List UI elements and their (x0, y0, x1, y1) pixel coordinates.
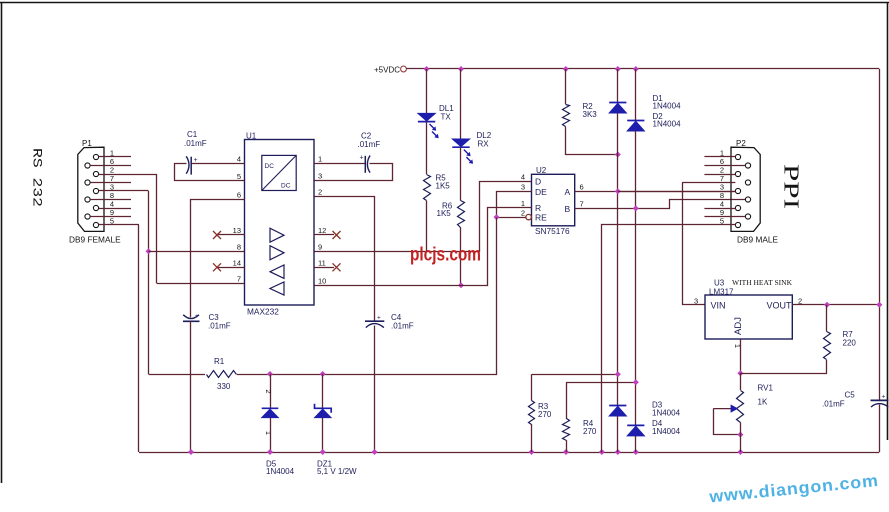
wire R4 to ground bus (566, 440, 568, 452)
P2 pin 7 wire (682, 182, 735, 184)
junction VOUT / R7 (824, 302, 830, 308)
svg-text:.01mF: .01mF (391, 322, 414, 331)
svg-text:VIN: VIN (711, 301, 726, 311)
diode D1 (609, 102, 626, 104)
U1 pin 12 stub and no-connect X (314, 234, 334, 236)
svg-text:RE: RE (535, 213, 547, 223)
svg-text:12: 12 (318, 226, 326, 235)
svg-text:3: 3 (694, 296, 698, 305)
wire P1 pin5 to ground bus (138, 225, 140, 452)
wire R5 to U1 pin9 net (426, 201, 428, 252)
svg-text:U3: U3 (714, 279, 725, 288)
svg-text:1K5: 1K5 (436, 182, 451, 191)
P1 pin 4 circle (93, 205, 98, 210)
svg-text:1: 1 (264, 431, 273, 435)
P2 pin 4 wire stub (704, 208, 735, 210)
svg-text:10: 10 (318, 277, 326, 286)
svg-text:R1: R1 (214, 357, 225, 366)
wire R3 top to D1 line (532, 374, 618, 376)
svg-text:7: 7 (237, 275, 241, 284)
connector P1 DB9 FEMALE body (78, 147, 104, 231)
svg-text:P2: P2 (736, 139, 746, 148)
svg-text:2: 2 (264, 389, 273, 393)
svg-text:C1: C1 (187, 130, 198, 139)
svg-text:MAX232: MAX232 (247, 307, 279, 317)
wire C5 to ground bus (879, 405, 881, 453)
svg-text:www.diangon.com: www.diangon.com (707, 471, 879, 507)
wire R4 top to D2 line (566, 382, 636, 384)
svg-text:+: + (377, 315, 381, 322)
wire R2 to D1 line (566, 127, 618, 155)
svg-text:VOUT: VOUT (767, 301, 793, 311)
P1 pin 9 wire stub (90, 216, 131, 218)
wire U1 pin6 to C3 (191, 200, 245, 318)
junction R1 net / DZ1 (320, 371, 326, 377)
resistor R6 (458, 201, 465, 228)
wire D4 to ground bus (635, 436, 637, 452)
P1 pin 8 circle (85, 197, 90, 202)
wire P1 pin2 down (156, 174, 158, 284)
wire +5VDC top bus (407, 68, 880, 70)
wire U1 pin9 to U2 pin4 (D) (315, 182, 532, 252)
svg-text:TX: TX (441, 113, 452, 122)
svg-text:5,1 V 1/2W: 5,1 V 1/2W (317, 467, 357, 476)
U1 pin 13 stub and no-connect X (217, 234, 245, 236)
junction ground bus x=322.7 (320, 449, 326, 455)
P2 pin 3 wire (618, 191, 736, 193)
junction ADJ node (737, 370, 743, 376)
P2 pin 7 circle (745, 180, 750, 185)
ground bus bottom wire (139, 452, 879, 454)
svg-text:+: + (882, 394, 886, 401)
capacitor C4 (365, 320, 384, 322)
P2 pin 5 circle (735, 222, 740, 227)
svg-text:7: 7 (580, 200, 584, 209)
svg-text:RS 232: RS 232 (30, 148, 44, 207)
U1 DC-DC converter symbol (262, 155, 296, 190)
wire U1 pin2 to C4 (315, 197, 375, 321)
wire ADJ node to R7 bottom (740, 373, 827, 375)
wire U1 pin10 to U2 pin1 (R) (315, 208, 532, 286)
LED DL1 (418, 113, 435, 121)
resistor R3 (529, 401, 535, 425)
svg-text:1N4004: 1N4004 (653, 120, 682, 129)
svg-text:270: 270 (538, 410, 552, 419)
wire DZ1 branch (322, 374, 324, 408)
P1 pin 2 circle (93, 171, 98, 176)
P1 pin 5 circle (93, 222, 98, 227)
U1 buffer triangle 2 (270, 246, 284, 260)
wire U1 pin7 (157, 283, 245, 285)
wire P1 pin3 down to junction (148, 191, 150, 374)
IC U3 LM317 body (705, 295, 792, 339)
junction ground bus x=270 (267, 449, 273, 455)
wire DL1 branch (426, 69, 428, 114)
P2 pin 6 circle (745, 163, 750, 168)
P2 pin 2 wire stub (704, 174, 735, 176)
page border left (1, 3, 3, 484)
junction ground bus x=374.5 (372, 449, 378, 455)
junction ground bus x=635.8 (633, 449, 639, 455)
P2 pin 4 circle (735, 205, 740, 210)
svg-text:DC: DC (265, 163, 275, 170)
zener diode DZ1 (315, 404, 332, 413)
svg-text:220: 220 (843, 339, 857, 348)
diode D2 (627, 120, 644, 122)
wire R2 branch (565, 69, 567, 104)
junction top bus DL2 (458, 66, 464, 72)
P1 pin 6 wire stub (90, 165, 131, 167)
DL1 light arrows (430, 124, 436, 130)
svg-text:6: 6 (237, 191, 241, 200)
svg-text:+5VDC: +5VDC (374, 65, 400, 74)
P1 pin 3 circle (93, 188, 98, 193)
P2 pin 5 wire (602, 225, 736, 453)
P2 pin 1 circle (735, 154, 740, 159)
svg-text:1K: 1K (758, 398, 768, 407)
RV1 wiper arrow (713, 408, 731, 410)
svg-text:+: + (194, 157, 198, 164)
junction top bus D1 (615, 66, 621, 72)
capacitor C1 wire pin4 side (192, 163, 245, 165)
svg-text:+: + (195, 313, 199, 320)
junction B line (633, 205, 639, 211)
svg-text:DE: DE (535, 187, 547, 197)
svg-text:ADJ: ADJ (733, 317, 744, 335)
junction ground bus x=601.8 (599, 449, 605, 455)
svg-text:R: R (535, 203, 541, 213)
P1 pin 9 circle (85, 214, 90, 219)
junction A line (615, 188, 621, 194)
inversion bubble U2 pin2 RE (526, 214, 531, 219)
P1 pin 2 wire (99, 174, 157, 176)
svg-text:B: B (565, 204, 571, 214)
U1 pin 14 stub and no-connect X (217, 267, 245, 269)
wire DL2 to R6 (460, 147, 462, 200)
resistor R2 (563, 105, 570, 127)
wire DZ1 to ground bus (322, 418, 324, 452)
junction top bus R2 (563, 66, 569, 72)
P2 pin 9 circle (745, 214, 750, 219)
junction ground bus x=191 (188, 449, 194, 455)
junction R6 / U1 pin10 (458, 282, 464, 288)
svg-text:270: 270 (583, 427, 597, 436)
diode D5 (262, 407, 279, 409)
wire +5V right side down to VOUT (879, 69, 881, 400)
P2 pin 3 circle (735, 188, 740, 193)
P2 pin 1 wire stub (704, 156, 735, 158)
wire C3 to ground bus (190, 321, 192, 452)
P1 pin 6 circle (85, 163, 90, 168)
svg-text:SN75176: SN75176 (535, 226, 570, 236)
wire R7 bottom (826, 360, 828, 374)
wire C2 to pin3 (315, 164, 393, 181)
IC U2 SN75176 body (532, 174, 575, 226)
junction R4 net / D2 line (633, 379, 639, 385)
P1 pin 4 wire stub (99, 208, 131, 210)
svg-text:5: 5 (237, 172, 241, 181)
P2 pin 8 circle (745, 197, 750, 202)
svg-text:1: 1 (318, 154, 322, 163)
diode D4 (627, 424, 644, 426)
P1 pin 8 wire stub (90, 199, 131, 201)
P1 pin 1 circle (93, 154, 98, 159)
junction ground bus x=531.5 (529, 449, 535, 455)
wire P2 pin7 down to U3 VIN (683, 183, 705, 305)
wire D2 branch (635, 69, 637, 121)
svg-text:4: 4 (521, 173, 525, 182)
junction P1.3 / U1.8 (146, 248, 152, 254)
DL2 light arrows (464, 150, 470, 156)
wire DL2 branch (460, 69, 462, 139)
svg-text:11: 11 (318, 259, 326, 268)
IC U1 MAX232 body (245, 140, 315, 306)
wire D2 down (B line) (635, 131, 637, 425)
junction ground bus x=617.8 (615, 449, 621, 455)
svg-text:DB9 FEMALE: DB9 FEMALE (69, 235, 121, 245)
svg-text:1N4004: 1N4004 (652, 409, 681, 418)
wire U2 B to P2 pin8 (jog) (575, 200, 746, 209)
wire U2 pin3 (DE) to RE tie (497, 192, 532, 218)
svg-text:1N4004: 1N4004 (653, 102, 682, 111)
svg-text:4: 4 (237, 154, 241, 163)
svg-text:C5: C5 (845, 391, 856, 400)
svg-text:D: D (535, 177, 541, 187)
junction ground bus x=566 (563, 449, 569, 455)
P2 pin 6 wire stub (704, 165, 745, 167)
svg-text:9: 9 (318, 243, 322, 252)
P1 pin 7 wire stub (90, 182, 131, 184)
capacitor C3 (183, 315, 199, 319)
terminal +5VDC (401, 66, 407, 72)
RV1 wiper loop wire (714, 409, 741, 435)
svg-text:+: + (360, 155, 364, 162)
wire DL1 to R5 (426, 122, 428, 174)
svg-text:PPI: PPI (780, 164, 804, 209)
svg-text:.01mF: .01mF (208, 322, 231, 331)
svg-text:3: 3 (318, 172, 322, 181)
wire R6 to U1 pin10 net (460, 227, 462, 285)
potentiometer RV1 (737, 391, 744, 423)
wire D3 to ground bus (617, 416, 619, 452)
wire RV1 to ground bus (740, 423, 742, 453)
svg-text:14: 14 (233, 259, 241, 268)
U1 pin 11 stub and no-connect X (314, 267, 334, 269)
wire DE/RE down to R1 net (149, 218, 497, 375)
wire R3 branch (531, 374, 533, 400)
wire R3 to ground bus (531, 424, 533, 452)
diode D3 (609, 405, 626, 407)
junction VOUT / +5V right bus (876, 302, 882, 308)
svg-text:1N4004: 1N4004 (652, 427, 681, 436)
svg-text:1: 1 (521, 199, 525, 208)
P1 pin 1 wire stub (99, 156, 131, 158)
page border top (0, 2, 889, 4)
capacitor C2 (364, 156, 366, 173)
U1 buffer triangle 1 (270, 228, 284, 242)
wire C1 to pin5 (175, 164, 245, 181)
svg-text:A: A (565, 187, 571, 197)
svg-text:1N4004: 1N4004 (266, 467, 295, 476)
wire U3 VOUT to right bus (792, 304, 879, 306)
wire U2 pin2 (RE) (497, 217, 526, 219)
svg-text:6: 6 (580, 183, 584, 192)
wire RV1 top (740, 373, 742, 390)
svg-text:RV1: RV1 (758, 384, 774, 393)
svg-text:330: 330 (217, 382, 231, 391)
resistor R1 (in horizontal wire) (205, 368, 237, 380)
P2 pin 9 wire stub (704, 216, 745, 218)
page border right (887, 3, 889, 441)
svg-text:1K5: 1K5 (437, 209, 452, 218)
junction R1 net / D5 (267, 371, 273, 377)
wire U1 pin8 (149, 251, 245, 253)
wire D5 branch (270, 374, 272, 408)
P1 pin 3 wire (99, 190, 149, 192)
LED DL2 (452, 139, 469, 147)
junction top bus DL1 (424, 66, 430, 72)
svg-text:P1: P1 (82, 139, 92, 148)
wire R7 top (826, 305, 828, 332)
wire D1 branch (617, 69, 619, 103)
wire U2 A to P2 pin3 (575, 191, 736, 193)
junction RV1 wiper / bottom (737, 432, 743, 438)
svg-text:RX: RX (478, 140, 490, 149)
resistor R7 (824, 332, 831, 360)
wire U3 ADJ down (740, 339, 742, 373)
junction ground bus x=740.4 (737, 449, 743, 455)
wire R4 branch (566, 382, 568, 419)
wire D5 to ground bus (270, 418, 272, 452)
svg-text:DC: DC (281, 183, 291, 190)
junction R3 net / D1 line (615, 371, 621, 377)
U1 buffer triangle 4 (270, 282, 284, 295)
junction DE/RE tie (494, 214, 500, 220)
resistor R5 (424, 175, 431, 201)
svg-text:WITH HEAT SINK: WITH HEAT SINK (732, 279, 793, 287)
capacitor C1 (190, 157, 192, 175)
U1 buffer triangle 3 (270, 265, 284, 278)
junction top bus D2 (633, 66, 639, 72)
svg-text:.01mF: .01mF (358, 140, 381, 149)
svg-text:13: 13 (233, 226, 241, 235)
junction R2 / D1 line (615, 152, 621, 158)
wire C4 to ground bus (374, 326, 376, 453)
connector P2 DB9 MALE body (731, 147, 760, 231)
P2 pin 2 circle (735, 171, 740, 176)
svg-text:.01mF: .01mF (184, 139, 207, 148)
P1 pin 7 circle (85, 180, 90, 185)
svg-text:plcjs.com: plcjs.com (410, 245, 481, 266)
capacitor C5 (871, 399, 889, 401)
svg-text:2: 2 (521, 209, 525, 218)
svg-text:.01mF: .01mF (822, 400, 845, 409)
svg-text:3: 3 (521, 183, 525, 192)
capacitor C2 wire pin1 side (314, 163, 365, 165)
svg-text:2: 2 (318, 188, 322, 197)
resistor R4 (563, 419, 570, 441)
P1 pin 5 wire (99, 224, 139, 226)
svg-text:DB9 MALE: DB9 MALE (737, 235, 779, 245)
svg-text:8: 8 (237, 243, 241, 252)
wire D1 down (A line) (617, 113, 619, 406)
svg-text:3K3: 3K3 (583, 110, 598, 119)
